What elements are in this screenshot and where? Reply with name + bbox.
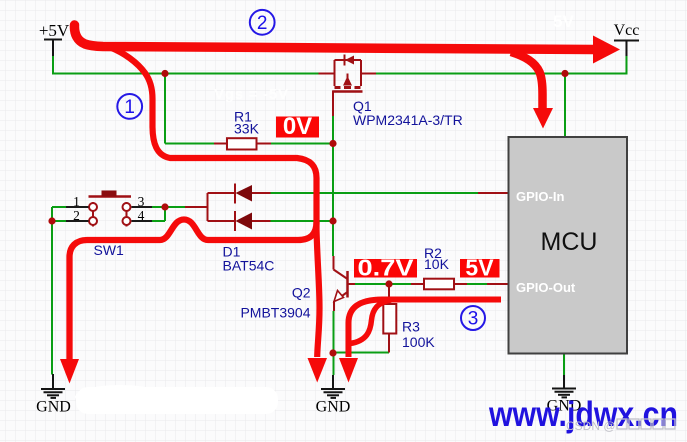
wire R3 bottom to emitter bbox=[333, 352, 389, 354]
transistor Q1 body bbox=[333, 55, 363, 92]
wire +5V stem green bbox=[52, 55, 54, 74]
wire Q2 base segments bbox=[355, 283, 487, 285]
svg-text:+5V: +5V bbox=[39, 21, 70, 40]
svg-text:5V: 5V bbox=[553, 12, 574, 31]
wire R1 pins bbox=[214, 143, 271, 145]
annotation path 1 main bbox=[111, 48, 320, 358]
power port Vcc bbox=[614, 41, 639, 57]
svg-text:2: 2 bbox=[73, 208, 80, 223]
wire node 165 vertical to R1 bbox=[165, 74, 214, 144]
svg-text:3: 3 bbox=[138, 194, 145, 209]
svg-text:GPIO-In: GPIO-In bbox=[516, 189, 564, 204]
resistor R2 bbox=[424, 279, 454, 290]
svg-text:GND: GND bbox=[36, 399, 71, 416]
circled number 1 bbox=[117, 94, 142, 119]
node rail-MCU bbox=[561, 70, 568, 77]
annotation red band path 2 bbox=[74, 25, 593, 50]
wire GPIO-Out stub bbox=[487, 283, 509, 285]
wire MCU top pin bbox=[564, 74, 566, 138]
SW1 pin numbers bbox=[73, 194, 145, 223]
svg-text:33K: 33K bbox=[234, 121, 260, 137]
svg-text:10K: 10K bbox=[424, 256, 450, 272]
ground right bbox=[552, 375, 576, 397]
circled number 2 bbox=[250, 10, 275, 35]
wire Q1 right pin bbox=[361, 73, 376, 75]
wire Vcc stem green bbox=[626, 56, 628, 75]
circled number 3 bbox=[461, 306, 485, 330]
annotation branch arrow to MCU top bbox=[511, 52, 543, 109]
diode D1 (dual, BAT54C) bbox=[208, 184, 236, 232]
svg-text:100K: 100K bbox=[402, 334, 435, 350]
resistor R1 bbox=[227, 138, 257, 149]
annotation path 1 branch to left GND bbox=[70, 220, 317, 360]
wire top rail right of Q1 bbox=[376, 73, 627, 75]
wire R3 bottom pin bbox=[388, 334, 390, 353]
wire GPIO-In line bbox=[271, 192, 479, 194]
node SW1 left bbox=[48, 217, 55, 224]
designator labels blue bbox=[94, 98, 463, 350]
wire MCU bottom pin bbox=[563, 354, 565, 376]
svg-text:CSDN @: CSDN @ bbox=[566, 419, 616, 433]
wire D1 bottom anode to node bbox=[271, 220, 334, 222]
svg-text:GND: GND bbox=[316, 399, 351, 416]
wire SW1 right pins to D1 bbox=[152, 207, 185, 221]
svg-text:MCU: MCU bbox=[541, 228, 598, 256]
annotation path 3 bbox=[349, 300, 502, 358]
Q1 body diode triangle bbox=[345, 56, 354, 65]
svg-text:Vcc: Vcc bbox=[614, 22, 640, 39]
wire: +5V rail top (green) bbox=[52, 55, 627, 375]
wire R2 pins bbox=[411, 283, 467, 285]
svg-text:0.7V: 0.7V bbox=[358, 255, 415, 281]
wire Q2 collector pin bbox=[333, 256, 335, 270]
SW1 black pin leads bbox=[66, 207, 152, 221]
svg-text:1: 1 bbox=[124, 97, 135, 118]
svg-text:5V: 5V bbox=[465, 255, 494, 281]
MCU block U? bbox=[509, 137, 628, 354]
label 0V box bbox=[276, 117, 319, 138]
wire D1 cathode pin bbox=[185, 206, 208, 208]
svg-text:Vgs = -5V: Vgs = -5V bbox=[214, 86, 288, 103]
wire R1 right to node 333 bbox=[271, 143, 333, 145]
wire D1 anode pins bbox=[252, 193, 271, 221]
svg-text:R3: R3 bbox=[402, 319, 420, 335]
node R1-gate bbox=[329, 140, 336, 147]
watermark CSDN gray bbox=[566, 419, 616, 433]
dark red pin stubs bbox=[185, 74, 509, 353]
svg-text:4: 4 bbox=[138, 208, 145, 223]
ground middle bbox=[321, 375, 345, 398]
svg-text:0V: 0V bbox=[283, 113, 312, 140]
wire node 333 vertical bbox=[332, 115, 334, 256]
svg-text:1: 1 bbox=[73, 194, 80, 209]
Q1 channel arrow bbox=[343, 76, 352, 86]
wire Q1 left pin bbox=[319, 73, 335, 75]
annotation arrowhead to Vcc bbox=[593, 36, 620, 64]
node rail-165 bbox=[161, 70, 168, 77]
svg-text:GPIO-Out: GPIO-Out bbox=[516, 280, 576, 295]
wire SW1 left pins bbox=[52, 207, 66, 375]
resistor R3 bbox=[383, 304, 396, 334]
annotation path 3 inner swoosh bbox=[350, 300, 391, 344]
svg-text:SW1: SW1 bbox=[94, 242, 125, 258]
transistor Q2 (PMBT3904) bbox=[334, 270, 348, 301]
node base-R3 bbox=[385, 280, 392, 287]
label 5V box bbox=[460, 259, 500, 278]
svg-text:2: 2 bbox=[257, 13, 268, 34]
wire Q2 base pin bbox=[348, 283, 356, 285]
svg-text:3: 3 bbox=[468, 309, 479, 330]
wire Q1 gate stub bbox=[332, 91, 334, 117]
wire R3 top pin bbox=[388, 284, 390, 304]
wire emitter down to GND bbox=[333, 311, 335, 375]
node D1 anode bbox=[329, 217, 336, 224]
wire top rail left of Q1 bbox=[52, 73, 319, 75]
node emitter-R3 bbox=[329, 349, 336, 356]
node SW1 right bbox=[161, 203, 168, 210]
power port +5V bbox=[44, 40, 62, 57]
svg-text:Q2: Q2 bbox=[292, 285, 311, 301]
wire Q2 emitter pin bbox=[333, 301, 335, 311]
watermark white blob bottom left bbox=[76, 387, 278, 414]
Q2 emitter arrow (open) bbox=[334, 291, 344, 302]
ground left bbox=[41, 374, 65, 398]
svg-text:BAT54C: BAT54C bbox=[223, 258, 275, 274]
label 0.7V box bbox=[354, 259, 417, 278]
svg-text:WPM2341A-3/TR: WPM2341A-3/TR bbox=[353, 112, 463, 128]
switch SW1 bbox=[89, 197, 132, 227]
wire GPIO-In stub bbox=[478, 192, 509, 194]
svg-text:PMBT3904: PMBT3904 bbox=[240, 305, 310, 321]
